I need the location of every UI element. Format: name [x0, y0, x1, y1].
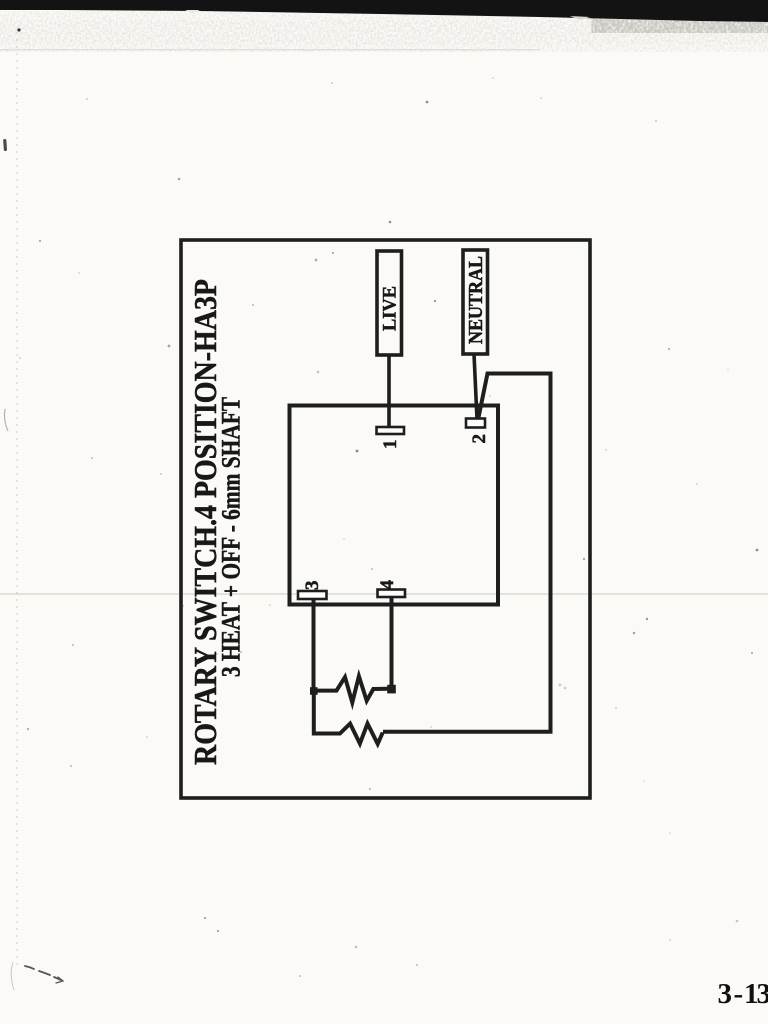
svg-text:3: 3	[757, 978, 768, 1010]
svg-text:3 HEAT + OFF - 6mm SHAFT: 3 HEAT + OFF - 6mm SHAFT	[217, 397, 246, 677]
svg-text:1: 1	[380, 440, 401, 450]
svg-text:LIVE: LIVE	[380, 286, 401, 331]
svg-text:4: 4	[377, 580, 398, 590]
svg-text:3: 3	[718, 978, 733, 1010]
svg-text:2: 2	[469, 434, 490, 444]
svg-text:-: -	[734, 978, 744, 1010]
svg-text:NEUTRAL: NEUTRAL	[465, 256, 487, 344]
svg-text:3: 3	[302, 581, 323, 591]
